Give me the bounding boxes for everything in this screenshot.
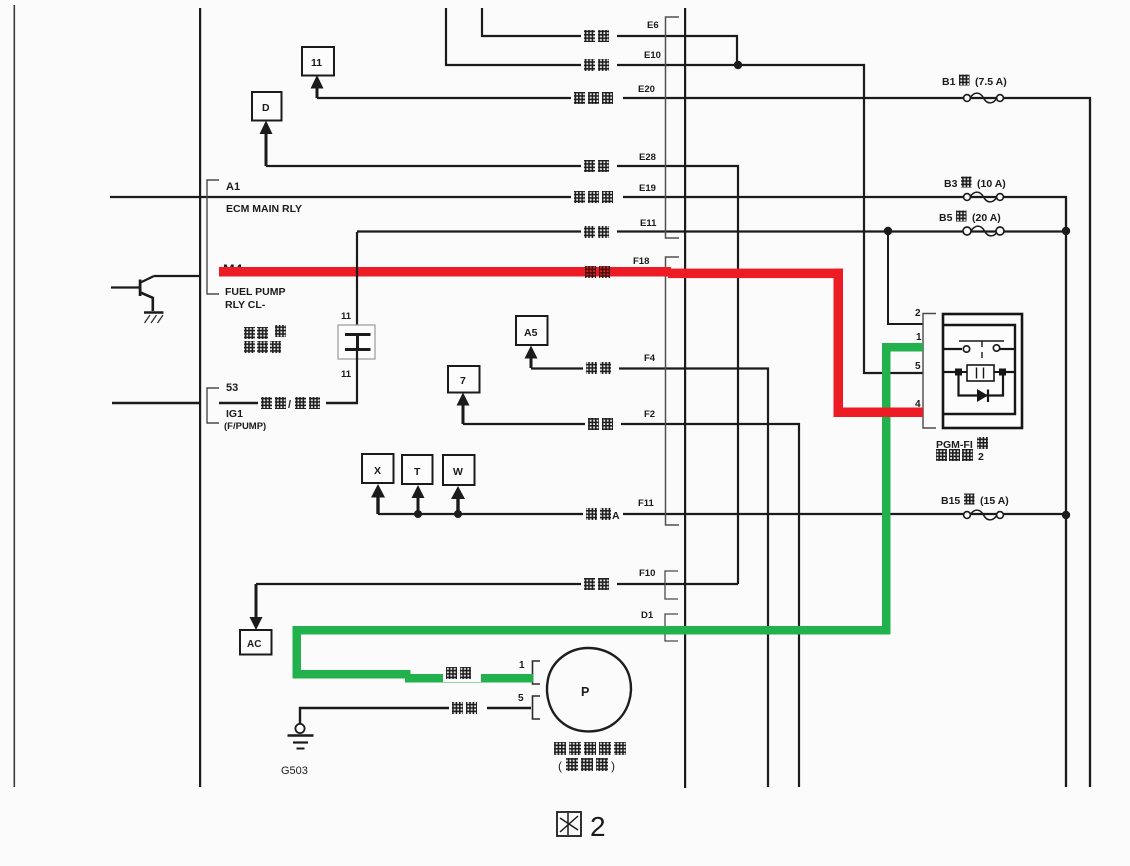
wire F11 brown-A to fuse B15 (378, 513, 1066, 515)
wire 53 row left (112, 402, 199, 404)
wire E11 gray to fuse B5 (357, 230, 1066, 232)
svg-text:AC: AC (247, 639, 261, 650)
junction dot F11 W (454, 510, 462, 518)
junction dot F11 T (414, 510, 422, 518)
svg-text:4: 4 (915, 399, 921, 410)
fuse B5 20A (963, 226, 1004, 236)
svg-text:(10 A): (10 A) (977, 178, 1006, 190)
wire green long horizontal (294, 626, 890, 635)
svg-text:T: T (414, 466, 421, 478)
svg-text:B1: B1 (942, 76, 956, 88)
svg-text:53: 53 (226, 382, 238, 394)
junction dot E6-E10 (734, 61, 742, 69)
wire F4 blue (531, 369, 768, 788)
connector bracket F10 (665, 571, 678, 599)
svg-text:11: 11 (341, 369, 352, 380)
pump motor circle (547, 648, 631, 731)
label wire color black pump (449, 700, 487, 716)
svg-text:): ) (611, 759, 615, 773)
arrow to box D (260, 121, 273, 167)
label wire color green D1 (443, 665, 481, 682)
svg-text:2: 2 (590, 811, 606, 842)
arrow to box T (412, 485, 425, 514)
box ref AC (240, 630, 272, 655)
label wire color white F2 (585, 416, 621, 431)
svg-text:A: A (612, 510, 620, 522)
svg-text:D: D (262, 102, 270, 114)
label wire color light-blue E19 (571, 189, 623, 204)
connector bracket E-section (666, 17, 680, 238)
wire E10 brown to relay pin5 (446, 8, 923, 373)
svg-text:RLY CL-: RLY CL- (225, 299, 266, 311)
arrow to box X (371, 484, 385, 514)
label fuse B1 7.5A (942, 75, 1007, 89)
connector bracket D1 (665, 614, 678, 641)
svg-text:(7.5 A): (7.5 A) (975, 76, 1007, 88)
svg-text:/: / (288, 399, 291, 411)
wire A1 to E19 to fuse B3 (110, 197, 1066, 787)
connector bracket ECM A1 (207, 180, 219, 294)
svg-text:F18: F18 (633, 256, 649, 267)
fuse B15 15A (964, 510, 1004, 520)
fuse B1 7.5A (964, 93, 1004, 103)
svg-text:E28: E28 (639, 152, 656, 163)
box ref 7 (448, 366, 480, 393)
svg-text:5: 5 (518, 693, 524, 704)
label wire color light-green E20 (571, 90, 623, 105)
svg-text:(15 A): (15 A) (980, 495, 1009, 507)
caption figure 2 (557, 811, 606, 842)
wire E20 light green to fuse B1 (317, 98, 1090, 787)
label wire color gray E11 (581, 224, 617, 239)
box ref D (252, 92, 282, 121)
label fuse B3 10A (944, 177, 1006, 191)
label pump unit chinese (554, 742, 626, 773)
fuse B3 10A (964, 192, 1004, 202)
wire red horizontal from ECM (219, 267, 671, 277)
wire green vertical right (882, 343, 891, 634)
label relay PGM-FI main relay 2 (936, 437, 988, 463)
connector bracket ECM 53 (207, 388, 219, 423)
svg-text:W: W (453, 466, 463, 478)
wire F10 white (256, 583, 738, 585)
wire B5 to relay pin2 (888, 232, 923, 325)
wire F2 white (463, 424, 799, 787)
svg-text:E10: E10 (644, 50, 661, 61)
ground transistor emitter (144, 313, 164, 324)
arrow to box A5 (525, 346, 538, 369)
svg-text:2: 2 (915, 308, 921, 319)
connector bracket pump pin1 (533, 661, 541, 684)
label wire color blue F4 (583, 360, 619, 375)
svg-text:D1: D1 (641, 610, 654, 621)
svg-text:IG1: IG1 (226, 408, 243, 420)
transistor Q drive (111, 276, 199, 311)
svg-text:P: P (581, 685, 589, 699)
svg-text:7: 7 (460, 375, 466, 387)
label fuse B5 20A (939, 211, 1001, 225)
svg-text:5: 5 (915, 361, 921, 372)
wire left page border (14, 5, 16, 787)
svg-text:F10: F10 (639, 568, 655, 579)
arrow to box 7 (457, 393, 470, 425)
svg-text:FUEL PUMP: FUEL PUMP (225, 286, 285, 298)
svg-text:1: 1 (916, 332, 922, 343)
svg-text:E20: E20 (638, 84, 655, 95)
junction dot B5 relay (884, 227, 892, 235)
arrow to box 11 (311, 75, 324, 98)
svg-text:E11: E11 (640, 218, 657, 229)
connector bracket F-section (666, 257, 680, 525)
svg-text:F4: F4 (644, 353, 656, 364)
wire pump ground black (300, 708, 531, 724)
wire green relay pin1 horizontal (884, 343, 923, 352)
wire harness vertical main (684, 8, 686, 788)
connector bracket relay (923, 314, 936, 429)
box ref X (362, 454, 394, 483)
svg-text:2: 2 (978, 451, 984, 463)
relay PGM-FI main relay 2 (943, 314, 1022, 428)
svg-text:F2: F2 (644, 409, 655, 420)
wire green vertical left (293, 626, 302, 678)
arrow down to box AC (250, 584, 263, 630)
box ref 11 (302, 47, 334, 76)
svg-text:11: 11 (311, 57, 322, 69)
wire green lower horizontal 1 (293, 670, 411, 679)
svg-text:(: ( (558, 759, 562, 773)
wire red horizontal after connector (668, 269, 843, 279)
svg-text:A1: A1 (226, 181, 240, 193)
label wire color brown E6 (581, 28, 617, 43)
label wire color blue-black 53 (258, 395, 326, 411)
svg-text:X: X (374, 465, 381, 477)
wire red vertical (834, 269, 844, 417)
label wire color brown-A F11 (583, 506, 623, 522)
svg-text:G503: G503 (281, 765, 308, 777)
svg-text:(F/PUMP): (F/PUMP) (224, 421, 266, 432)
svg-text:E19: E19 (639, 183, 656, 194)
svg-text:B5: B5 (939, 212, 953, 224)
wire ECM boundary vertical (199, 8, 201, 787)
label fuse B15 15A (941, 494, 1009, 508)
junction dot B15 right (1062, 511, 1070, 519)
svg-text:B15: B15 (941, 495, 960, 507)
label wire color red F18 (585, 266, 610, 278)
svg-text:11: 11 (341, 311, 352, 322)
wire 53 blue-black to capacitor (219, 402, 358, 404)
svg-text:ECM MAIN RLY: ECM MAIN RLY (226, 203, 302, 215)
ground G503 (288, 724, 314, 749)
wire red to relay pin4 (834, 408, 924, 418)
label wire color white F10 (581, 576, 617, 591)
label capacitor fuel pump relay chinese (244, 325, 286, 353)
wire green lower horizontal 2 to pump (405, 674, 533, 683)
arrow to box W (451, 486, 465, 514)
svg-text:E6: E6 (647, 20, 659, 31)
connector bracket pump pin5 (533, 696, 541, 719)
wire F10 to AC arrow (255, 584, 257, 620)
capacitor noise condenser (338, 232, 375, 403)
wire E6 brown (482, 8, 737, 65)
junction dot B3-B5 (1062, 227, 1070, 235)
svg-text:F11: F11 (638, 498, 655, 509)
box ref W (443, 455, 475, 485)
label wire color brown E10 (581, 57, 617, 72)
svg-text:(20 A): (20 A) (972, 212, 1001, 224)
box ref A5 (516, 316, 548, 345)
svg-text:B3: B3 (944, 178, 958, 190)
label wire color white E28 (581, 158, 617, 173)
wire E28 white (266, 166, 738, 584)
svg-text:A5: A5 (524, 327, 538, 339)
svg-text:1: 1 (519, 660, 525, 671)
box ref T (402, 455, 433, 484)
